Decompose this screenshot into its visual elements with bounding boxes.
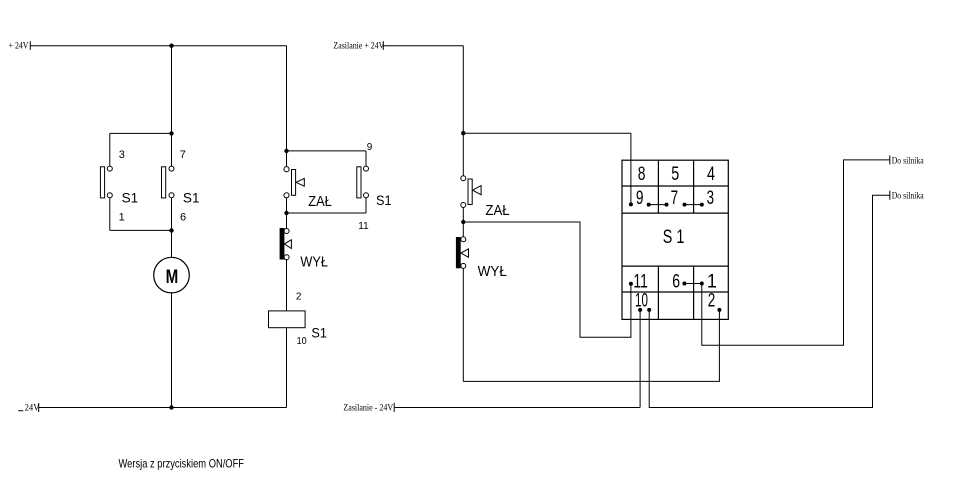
net label Zasilanie -24V — [343, 402, 394, 412]
node junction top rail — [169, 44, 173, 48]
wire motor to bottom rail — [171, 293, 173, 408]
wire junction to ZAL right — [462, 133, 464, 176]
svg-text:6: 6 — [672, 271, 680, 292]
svg-text:ZAŁ: ZAŁ — [308, 193, 332, 210]
wire below contact 7-6 — [171, 198, 173, 231]
wire rail Zasilanie -24V — [395, 407, 640, 409]
switch S1 contact 7-6 — [162, 166, 200, 205]
socket column line right — [693, 160, 695, 319]
node junction above motor — [169, 228, 173, 232]
svg-text:1: 1 — [707, 271, 717, 292]
wire to pin 2 — [463, 310, 719, 382]
svg-text:+ 24V: + 24V — [9, 41, 29, 51]
wire below contact 3-1 — [109, 198, 111, 231]
svg-text:11: 11 — [358, 221, 369, 232]
svg-text:24V: 24V — [25, 402, 40, 412]
svg-text:4: 4 — [707, 164, 715, 185]
pushbutton WYL — [280, 228, 328, 271]
wire supply rail right — [383, 45, 463, 47]
svg-text:S1: S1 — [311, 325, 327, 341]
svg-text:Zasilanie - 24V: Zasilanie - 24V — [343, 402, 393, 412]
wire latch contact down — [365, 151, 367, 166]
svg-text:S 1: S 1 — [663, 227, 685, 248]
wire coil branch down from top rail — [286, 46, 288, 151]
pushbutton ZAL right — [461, 176, 510, 219]
svg-text:M: M — [166, 267, 179, 288]
wire WYL to coil — [286, 259, 288, 311]
wire to motor — [171, 230, 173, 257]
svg-text:Wersja z przyciskiem ON/OFF: Wersja z przyciskiem ON/OFF — [119, 457, 245, 471]
switch S1 contact 9-11 — [357, 166, 392, 208]
svg-text:5: 5 — [671, 164, 679, 185]
wire bottom rail -24V — [39, 407, 287, 409]
pushbutton ZAL — [284, 167, 332, 210]
svg-text:10: 10 — [297, 336, 307, 347]
wire left branch to junction — [110, 229, 172, 231]
wire main branch down — [171, 46, 173, 134]
wire pin 1 to Do silnika — [702, 160, 890, 345]
svg-text:2: 2 — [296, 292, 302, 303]
svg-text:1: 1 — [119, 212, 125, 224]
svg-text:S1: S1 — [122, 190, 139, 206]
wire below contact 9-11 — [365, 198, 367, 213]
wire junction to ZAL — [286, 151, 288, 166]
jumper 9-7 — [647, 203, 669, 207]
svg-text:3: 3 — [707, 188, 714, 209]
wire right main down — [462, 46, 464, 134]
svg-text:WYŁ: WYŁ — [478, 263, 507, 280]
svg-text:9: 9 — [636, 188, 644, 209]
pin 10 dots — [638, 308, 651, 312]
wire ZAL to WYL right — [462, 208, 464, 237]
wire top rail +24V — [30, 45, 286, 47]
wire latch to junction — [287, 212, 367, 214]
socket row line 3 — [622, 265, 728, 267]
svg-text:S1: S1 — [376, 192, 392, 208]
wire ZAL to WYL — [286, 198, 288, 228]
net label Do silnika 2 — [890, 191, 924, 201]
svg-text:WYŁ: WYŁ — [300, 254, 328, 271]
net label Do silnika 1 — [890, 155, 924, 165]
svg-text:6: 6 — [180, 212, 186, 224]
net label -24V — [18, 402, 40, 412]
socket row line 1 — [622, 185, 728, 187]
net label Zasilanie +24V — [333, 41, 384, 51]
svg-text:9: 9 — [367, 142, 373, 153]
pin 2 dot — [717, 308, 721, 312]
svg-text:Do silnika: Do silnika — [892, 155, 924, 165]
socket row line 4 — [622, 291, 728, 293]
pushbutton WYL right — [456, 237, 507, 280]
svg-text:Do silnika: Do silnika — [892, 191, 924, 201]
svg-text:8: 8 — [638, 164, 646, 185]
wire to pin 9 — [463, 132, 631, 134]
jumper 6-1 — [682, 282, 703, 286]
relay socket S1 outline — [622, 160, 728, 319]
wire coil to bottom rail — [286, 328, 288, 408]
wire to latch contact — [287, 150, 367, 152]
wire left branch down — [109, 133, 111, 166]
svg-text:7: 7 — [180, 149, 186, 161]
motor M — [154, 257, 190, 293]
node junction right top — [461, 131, 465, 135]
svg-text:Zasilanie + 24V: Zasilanie + 24V — [333, 41, 384, 51]
node junction bottom rail — [169, 405, 173, 409]
wire above contact 7-6 — [171, 133, 173, 166]
svg-text:3: 3 — [119, 149, 125, 161]
pin 9 dot — [629, 202, 633, 206]
svg-text:7: 7 — [671, 188, 679, 209]
svg-text:2: 2 — [708, 290, 716, 311]
svg-text:11: 11 — [633, 271, 648, 292]
wire latch to pin 11 — [463, 222, 631, 337]
wire pin 10 to Do silnika — [649, 195, 890, 407]
node junction above ZAL — [284, 149, 288, 153]
wire down into pin 9 — [630, 133, 632, 204]
socket column line left — [657, 160, 659, 319]
svg-text:10: 10 — [635, 290, 648, 311]
socket row line 2 — [622, 212, 728, 214]
svg-text:ZAŁ: ZAŁ — [485, 202, 509, 219]
node junction split — [169, 131, 173, 135]
wire to left branch — [110, 132, 172, 134]
svg-text:S1: S1 — [183, 190, 200, 206]
node junction below ZAL — [284, 211, 288, 215]
switch S1 contact 3-1 — [100, 166, 138, 205]
jumper 7-3 — [683, 203, 704, 207]
wire WYL down right — [462, 268, 464, 381]
node junction below ZAL right — [461, 220, 465, 224]
net label +24V — [9, 41, 31, 51]
pin 11 dot — [629, 282, 633, 286]
wire pin 10 down — [639, 310, 641, 408]
relay coil S1 — [269, 311, 328, 347]
